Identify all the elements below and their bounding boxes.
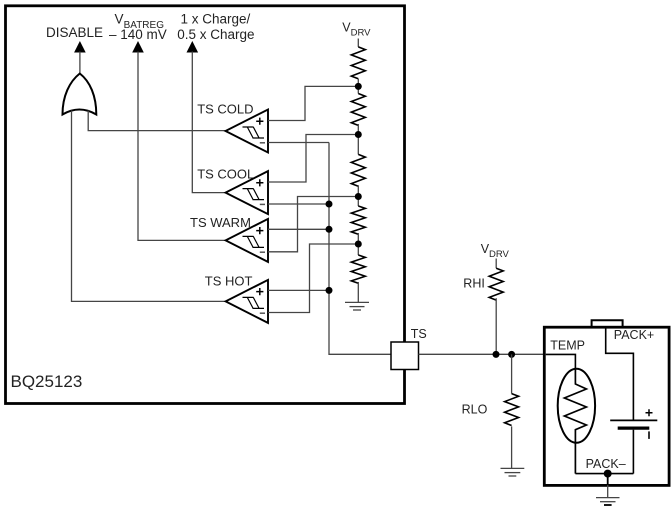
svg-text:RHI: RHI bbox=[463, 276, 485, 290]
wire OR gate right input from TS COLD output bbox=[88, 111, 225, 131]
wire TS COOL + input to ladder tap 2 bbox=[268, 135, 358, 183]
junction TS net / TS COOL - bbox=[326, 201, 333, 208]
wire TS COOL output to charge arrow bbox=[192, 52, 225, 193]
junction TS net / TS HOT + bbox=[326, 287, 333, 294]
resistor divider ladder R1-R5 bbox=[351, 39, 365, 303]
ground ladder bottom bbox=[345, 302, 369, 310]
wire TEMP to thermistor bbox=[546, 354, 576, 369]
junction ladder tap 4 bbox=[355, 241, 362, 248]
arrow VBATREG bbox=[132, 41, 144, 53]
svg-text:– 140 mV: – 140 mV bbox=[109, 27, 167, 42]
junction PACK- node bbox=[604, 470, 612, 478]
arrow DISABLE bbox=[74, 41, 86, 53]
svg-text:RLO: RLO bbox=[462, 402, 488, 416]
svg-text:DISABLE: DISABLE bbox=[46, 25, 103, 40]
svg-text:TS COOL: TS COOL bbox=[197, 167, 254, 182]
battery cell B1 bbox=[610, 409, 657, 473]
comparator U2 TS COLD bbox=[197, 102, 268, 153]
arrow charge rate bbox=[187, 41, 199, 53]
comparator U4 TS WARM bbox=[190, 215, 268, 262]
wire TS HOT + input to TS net bbox=[268, 289, 329, 291]
svg-text:TS: TS bbox=[411, 327, 427, 341]
thermistor RT1 bbox=[558, 369, 595, 474]
wire TS WARM + input to TS net bbox=[268, 228, 329, 230]
power label VDRV right bbox=[481, 242, 510, 260]
wire TS COOL - input to TS net bbox=[268, 203, 329, 205]
svg-text:BQ25123: BQ25123 bbox=[11, 372, 83, 391]
battery pack box BT1 bbox=[544, 327, 669, 485]
comparator U5 TS HOT bbox=[205, 274, 268, 323]
svg-text:DRV: DRV bbox=[489, 249, 510, 260]
wire TS WARM - input to ladder tap 3 bbox=[268, 197, 358, 252]
ground PACK- bbox=[596, 498, 620, 505]
power label VDRV ladder top bbox=[342, 21, 371, 39]
svg-text:PACK+: PACK+ bbox=[614, 328, 654, 342]
svg-text:DRV: DRV bbox=[351, 27, 372, 38]
wire PACK+ to battery bbox=[606, 328, 634, 420]
IC boundary box U1 BQ25123 bbox=[6, 6, 405, 404]
svg-text:TEMP: TEMP bbox=[550, 339, 585, 353]
junction ladder tap 3 bbox=[355, 193, 362, 200]
ground RLO bbox=[501, 468, 525, 476]
resistor RHI bbox=[463, 259, 503, 355]
junction TS net / TS WARM + bbox=[326, 226, 333, 233]
wire TS COLD + input to ladder tap 1 bbox=[268, 86, 358, 120]
OR gate G1 bbox=[63, 74, 97, 115]
svg-text:1 x Charge/: 1 x Charge/ bbox=[181, 12, 251, 27]
terminal tab PACK+ top bbox=[592, 320, 623, 326]
resistor RLO bbox=[462, 354, 519, 468]
wire TS WARM output to VBATREG arrow bbox=[138, 52, 226, 241]
wire thermistor to battery negative bbox=[575, 473, 633, 475]
comparator U3 TS COOL bbox=[197, 167, 268, 215]
junction RLO / TS node bbox=[508, 351, 515, 358]
pin TS bbox=[391, 327, 427, 370]
junction ladder tap 1 bbox=[355, 83, 362, 90]
svg-text:TS WARM: TS WARM bbox=[190, 215, 251, 230]
svg-text:PACK–: PACK– bbox=[586, 457, 626, 471]
wire PACK- to ground bbox=[607, 474, 609, 497]
junction ladder tap 2 bbox=[355, 131, 362, 138]
wire OR gate left input from TS HOT output bbox=[72, 111, 226, 302]
junction RHI / TS node bbox=[493, 351, 500, 358]
wire TS HOT - input to ladder tap 4 bbox=[268, 244, 358, 313]
wire TS COLD - input to TS net bbox=[268, 142, 329, 144]
net label VBATREG - 140 mV bbox=[109, 12, 167, 42]
svg-text:V: V bbox=[115, 12, 124, 27]
svg-text:TS COLD: TS COLD bbox=[197, 102, 253, 117]
wire OR output to DISABLE arrow bbox=[79, 52, 81, 74]
svg-text:TS HOT: TS HOT bbox=[205, 274, 253, 289]
wire TS pin to thermistor node bbox=[419, 353, 544, 355]
wire TS net vertical to TS pin bbox=[329, 143, 391, 355]
svg-text:0.5 x Charge: 0.5 x Charge bbox=[177, 27, 254, 42]
net label 1x/0.5x Charge bbox=[177, 12, 254, 42]
